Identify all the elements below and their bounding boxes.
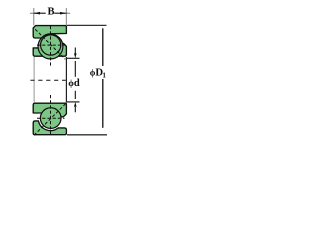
- svg-text:B: B: [47, 7, 54, 18]
- svg-text:ϕd: ϕd: [68, 78, 80, 89]
